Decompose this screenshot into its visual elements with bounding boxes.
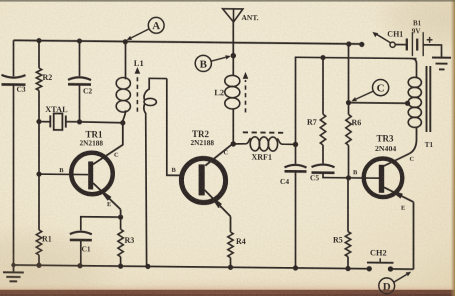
TR2 emitter wire (205, 190, 231, 232)
node dot top rail / R2 (36, 38, 41, 43)
TR3 base wire (349, 169, 380, 178)
wire battery to chassis ground (423, 45, 441, 58)
L2 tuning dashed arrow (243, 72, 249, 113)
node C arrow (351, 91, 373, 102)
node dot top rail / C2 (77, 38, 82, 43)
wire R6 vertical (348, 44, 350, 178)
node dot bottom rail / R5 (345, 266, 350, 271)
rf choke XRF1 (233, 137, 295, 162)
wire L1 top lead (125, 42, 127, 80)
switch CH2 (367, 248, 394, 262)
capacitor C2 (68, 77, 92, 95)
node dot XRF1 right (293, 142, 298, 147)
resistor R5 (333, 178, 351, 269)
node D arrow (394, 272, 411, 283)
wire L1 secondary to TR2 base (167, 79, 184, 176)
node dot bottom rail / R3 (118, 264, 123, 269)
resistor R2 (36, 68, 52, 90)
node dot XRF1 left / TR2 collector (231, 141, 236, 146)
node dot top rail / R6 line (346, 41, 351, 46)
node dot bottom rail / L1 secondary (145, 264, 150, 269)
transformer T1 primary (408, 58, 433, 149)
battery plus sign (427, 37, 433, 43)
node dot bottom rail / C4 (293, 265, 298, 270)
wire CH1 to battery (395, 44, 406, 46)
wire R4 to rail (230, 258, 232, 268)
battery B1 9V (407, 19, 423, 56)
node dot CH2 right (388, 266, 393, 271)
TR2 base label (172, 167, 177, 174)
transistor TR2 2N2188 (181, 129, 225, 203)
wire C1 to rail (80, 240, 82, 266)
inductor L2 (214, 75, 240, 144)
node C (373, 79, 389, 95)
wire R7 vertical (322, 58, 324, 164)
resistor R7 (307, 114, 326, 145)
node dot CH2 left (367, 266, 372, 271)
node dot XTAL right (77, 119, 82, 124)
capacitor C1 (70, 232, 92, 254)
capacitor C5 (310, 164, 335, 182)
node dot TR3 base (346, 175, 351, 180)
node A arrow (127, 29, 150, 41)
resistor R4 (228, 232, 246, 258)
antenna ANT (223, 9, 259, 23)
resistor R3 (118, 217, 134, 266)
wire R2-R1 vertical (38, 41, 40, 266)
node B dot (231, 53, 236, 58)
ground (bottom left) (3, 265, 24, 282)
TR1 collector wire (93, 122, 123, 164)
node dot bottom rail / R4 (228, 265, 233, 270)
wire C node tap to T1 (349, 102, 408, 105)
TR3 emitter wire (384, 187, 414, 269)
inductor L1 primary (116, 58, 144, 123)
capacitor C4 (280, 165, 307, 186)
capacitor C3 (2, 75, 26, 94)
TR2 collector wire (205, 143, 233, 166)
node dot second rail / R7 (320, 55, 325, 60)
node dot bottom rail corner (11, 263, 15, 267)
node B (195, 55, 211, 71)
wire antenna down to L2 (232, 22, 234, 76)
TR1 emitter wire (93, 183, 121, 217)
node D (379, 278, 395, 294)
node B arrow (211, 55, 231, 61)
wire bottom ground rail (14, 265, 414, 269)
wire C4 vertical (295, 144, 297, 268)
node dot TR1 collector junction (120, 120, 125, 125)
node A (148, 17, 164, 33)
node dot top rail end (359, 42, 364, 47)
wire top supply rail (14, 40, 365, 44)
TR1 base wire (36, 167, 88, 177)
node C dot (346, 100, 351, 105)
wire second rail (B+ feed) (296, 57, 417, 145)
transistor TR1 2N2188 (71, 129, 113, 194)
wire C1 branch (81, 217, 121, 231)
node dot top rail / L1 (123, 39, 128, 44)
switch CH1 (372, 29, 403, 47)
wire XTAL row (39, 121, 123, 122)
node dot bottom rail / C1 (77, 263, 82, 268)
node dot bottom rail / R1 (36, 263, 41, 268)
node dot T1 tap (405, 101, 410, 106)
node dot XTAL left (36, 119, 41, 124)
TR3 collector wire (384, 127, 417, 166)
wire C5 to TR3 base node (323, 173, 349, 178)
transistor TR3 2N404 (364, 133, 403, 197)
node dot TR1 emitter branch (118, 215, 123, 220)
XRF1 core dashed line (243, 131, 285, 133)
wire left vertical (C3 branch) (13, 40, 15, 265)
L1 tuning dashed arrow (135, 67, 141, 112)
inductor L1 secondary winding (144, 78, 167, 266)
crystal XTAL (45, 105, 68, 130)
chassis ground (battery) (432, 58, 451, 70)
wire C2 vertical (79, 41, 81, 122)
resistor R6 (346, 114, 361, 145)
resistor R1 (36, 230, 51, 255)
transformer T1 core (427, 66, 431, 132)
